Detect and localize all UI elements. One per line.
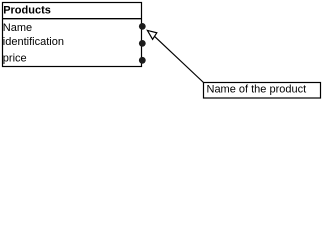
dot 3 (price)	[139, 57, 146, 64]
svg-text:Name: Name	[3, 22, 32, 34]
svg-text:Products: Products	[3, 5, 51, 17]
svg-text:identification: identification	[3, 36, 64, 48]
callout line	[155, 36, 204, 82]
callout box	[204, 83, 321, 99]
open arrowhead	[147, 30, 156, 39]
svg-text:Name of the product: Name of the product	[207, 84, 307, 96]
svg-text:price: price	[3, 53, 27, 65]
dot 1 (Name)	[139, 23, 146, 30]
title separator	[2, 18, 142, 20]
dot 2 (identification)	[139, 40, 146, 47]
class box Products	[3, 3, 142, 67]
